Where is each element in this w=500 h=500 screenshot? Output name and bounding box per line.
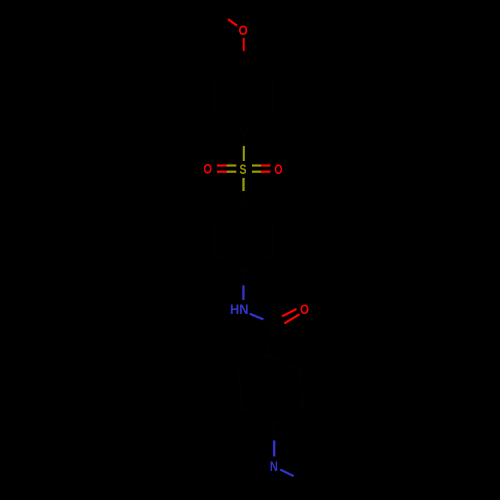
bond S=O right lower line (red O half) <box>261 171 270 173</box>
bond S=O left lower line (olive S half) <box>227 171 237 173</box>
bond ring3-N carbon half <box>273 423 275 440</box>
bond S-ring2 carbon half <box>243 191 245 204</box>
svg-text:N: N <box>270 459 278 474</box>
svg-text:S: S <box>240 161 247 177</box>
bond S=O right upper line (olive S half) <box>252 164 261 166</box>
bond C=O lower line carbon half <box>273 323 285 329</box>
bond C=O upper line red half <box>282 309 297 316</box>
bond N-C(=O) visible blue half <box>250 314 264 320</box>
bond ring3-N visible blue half <box>273 440 276 456</box>
ring 3 benzene (carbon, near-black) <box>239 355 303 423</box>
bond ring2-N carbon half <box>242 271 244 285</box>
bond N-C(=O) carbon half <box>264 319 272 325</box>
bond S-ring2 visible olive half <box>242 178 244 191</box>
bond S=O right lower line (olive S half) <box>252 171 261 173</box>
bond ring1-S visible olive half <box>243 146 245 161</box>
bond CH3-O visible red half <box>228 19 237 25</box>
bond N2-CH3 visible blue half <box>280 470 294 477</box>
bond ring1-S carbon half <box>243 132 245 146</box>
bond O1-ring1 carbon half <box>243 51 245 64</box>
svg-text:O: O <box>300 301 309 317</box>
bond C=O lower line red half <box>284 314 299 323</box>
ring 2 benzene (carbon, near-black) <box>215 204 273 271</box>
bond S=O left upper line (red O half) <box>217 164 227 166</box>
bond C=O upper line carbon half <box>271 316 283 322</box>
bond O1-ring1 visible red half <box>243 38 245 51</box>
bond ring2-N visible blue half <box>242 285 244 300</box>
bond C-ring3 (carbon) <box>268 327 271 355</box>
bond S=O left upper line (olive S half) <box>227 164 237 166</box>
bond S=O right upper line (red O half) <box>261 164 270 166</box>
svg-text:O: O <box>274 161 282 177</box>
bond S=O left lower line (red O half) <box>217 171 227 173</box>
wire CH3 stub of methoxy (carbon, near-black) <box>219 13 228 19</box>
svg-text:O: O <box>203 161 212 177</box>
svg-text:O: O <box>239 22 248 38</box>
wire N2-CH3 carbon half <box>294 476 306 482</box>
svg-text:HN: HN <box>230 301 249 317</box>
ring 1 benzene (carbon, near-black) <box>214 64 273 132</box>
